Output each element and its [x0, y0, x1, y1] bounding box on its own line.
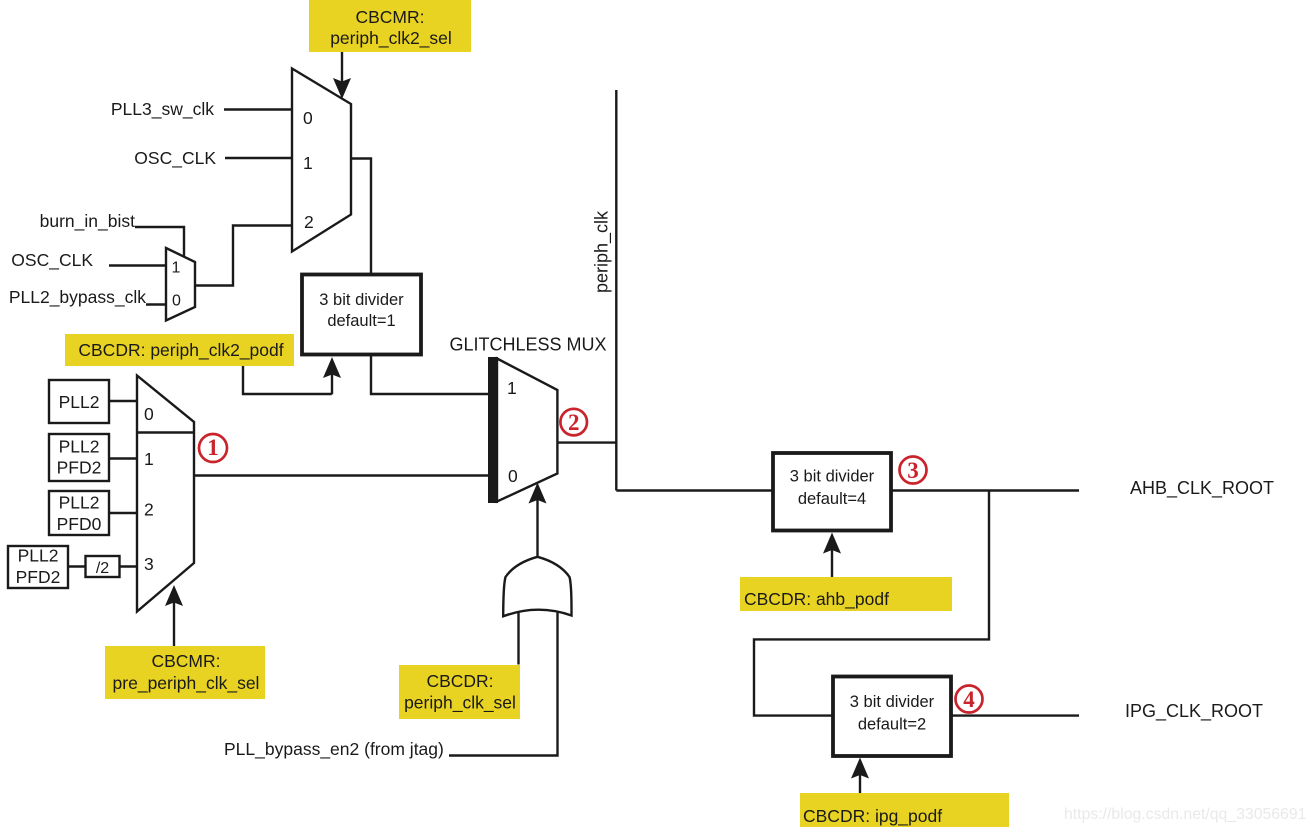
svg-text:PLL2: PLL2 — [59, 493, 100, 513]
svg-text:default=1: default=1 — [327, 312, 395, 330]
svg-text:IPG_CLK_ROOT: IPG_CLK_ROOT — [1125, 701, 1263, 722]
svg-text:PLL_bypass_en2 (from jtag): PLL_bypass_en2 (from jtag) — [224, 739, 444, 760]
svg-text:PLL2: PLL2 — [59, 392, 100, 412]
svg-text:default=2: default=2 — [858, 716, 926, 734]
svg-text:PFD2: PFD2 — [16, 567, 61, 587]
svg-text:CBCDR: ahb_podf: CBCDR: ahb_podf — [744, 589, 889, 610]
svg-text:1: 1 — [207, 435, 219, 460]
svg-text:2: 2 — [144, 500, 154, 520]
svg-text:PLL2_bypass_clk: PLL2_bypass_clk — [9, 287, 146, 308]
svg-text:3 bit divider: 3 bit divider — [319, 291, 404, 309]
svg-text:0: 0 — [144, 404, 154, 424]
svg-text:GLITCHLESS MUX: GLITCHLESS MUX — [449, 335, 606, 355]
svg-text:PFD0: PFD0 — [57, 514, 102, 534]
svg-text:CBCMR:: CBCMR: — [355, 7, 424, 27]
svg-text:PLL2: PLL2 — [18, 546, 59, 566]
svg-text:1: 1 — [303, 153, 313, 173]
svg-text:3: 3 — [907, 458, 919, 483]
svg-text:3: 3 — [144, 554, 154, 574]
svg-text:0: 0 — [172, 293, 181, 310]
svg-text:https://blog.csdn.net/qq_33056: https://blog.csdn.net/qq_33056691 — [1064, 806, 1307, 823]
svg-text:PLL2: PLL2 — [59, 437, 100, 457]
svg-text:3 bit divider: 3 bit divider — [790, 468, 875, 486]
svg-text:PLL3_sw_clk: PLL3_sw_clk — [111, 99, 214, 120]
svg-text:OSC_CLK: OSC_CLK — [11, 250, 93, 271]
svg-text:CBCDR: periph_clk2_podf: CBCDR: periph_clk2_podf — [78, 340, 283, 361]
svg-text:PFD2: PFD2 — [57, 458, 102, 478]
svg-text:0: 0 — [508, 466, 518, 486]
svg-text:2: 2 — [568, 410, 580, 435]
svg-text:periph_clk_sel: periph_clk_sel — [404, 693, 516, 714]
svg-text:1: 1 — [507, 378, 517, 398]
svg-text:CBCMR:: CBCMR: — [151, 651, 220, 671]
svg-text:0: 0 — [303, 108, 313, 128]
svg-text:2: 2 — [304, 212, 314, 232]
svg-text:default=4: default=4 — [798, 490, 866, 508]
svg-text:AHB_CLK_ROOT: AHB_CLK_ROOT — [1130, 478, 1274, 499]
svg-text:3 bit divider: 3 bit divider — [850, 693, 935, 711]
svg-text:periph_clk2_sel: periph_clk2_sel — [330, 28, 452, 49]
svg-text:1: 1 — [172, 260, 181, 277]
svg-text:1: 1 — [144, 449, 154, 469]
svg-text:CBCDR: ipg_podf: CBCDR: ipg_podf — [803, 806, 942, 827]
svg-text:pre_periph_clk_sel: pre_periph_clk_sel — [113, 673, 260, 694]
svg-text:OSC_CLK: OSC_CLK — [134, 148, 216, 169]
svg-text:4: 4 — [963, 687, 975, 712]
svg-text:/2: /2 — [96, 560, 109, 577]
svg-text:CBCDR:: CBCDR: — [426, 671, 493, 691]
svg-text:periph_clk: periph_clk — [592, 210, 613, 293]
svg-text:burn_in_bist: burn_in_bist — [40, 211, 135, 232]
